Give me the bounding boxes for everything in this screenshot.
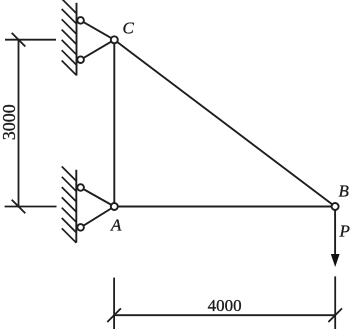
force P line: [334, 210, 336, 256]
support link lower pin to A: [81, 207, 115, 228]
top wall line: [76, 3, 78, 76]
force P arrowhead: [331, 254, 340, 267]
node A circle: [111, 203, 118, 210]
member A-B horizontal: [114, 206, 335, 208]
member C-A vertical: [113, 40, 115, 207]
dimension 4000 line: [114, 314, 335, 316]
svg-text:4000: 4000: [208, 296, 242, 315]
support link upper pin to C: [81, 20, 115, 39]
pin circle top support lower: [77, 56, 84, 63]
bottom wall line: [75, 170, 77, 243]
svg-text:P: P: [339, 221, 350, 240]
dimension 4000 tick right: [328, 308, 342, 322]
top wall hatching: [62, 0, 77, 75]
dimension 3000 tick bottom: [12, 200, 26, 214]
dimension 4000 extension line left: [113, 278, 115, 329]
support link upper pin to A: [81, 188, 115, 207]
dimension 4000 extension line right: [334, 276, 336, 329]
support link lower pin to C: [81, 40, 115, 60]
dimension 4000 tick left: [107, 308, 121, 322]
dimension 3000 extension line bottom: [5, 206, 57, 208]
node B circle: [332, 203, 339, 210]
bottom wall hatching: [62, 167, 77, 243]
pin circle top support upper: [77, 17, 84, 24]
svg-text:B: B: [339, 182, 350, 201]
dimension 3000 tick top: [12, 33, 26, 47]
pin circle bottom support upper: [77, 184, 84, 191]
dimension 3000 extension line top: [5, 39, 56, 41]
svg-text:C: C: [123, 19, 135, 38]
dimension 3000 line: [18, 40, 20, 207]
svg-text:3000: 3000: [0, 104, 19, 140]
node C circle: [111, 36, 118, 43]
member C-B diagonal: [114, 40, 335, 207]
svg-text:A: A: [110, 216, 122, 235]
pin circle bottom support lower: [77, 224, 84, 231]
